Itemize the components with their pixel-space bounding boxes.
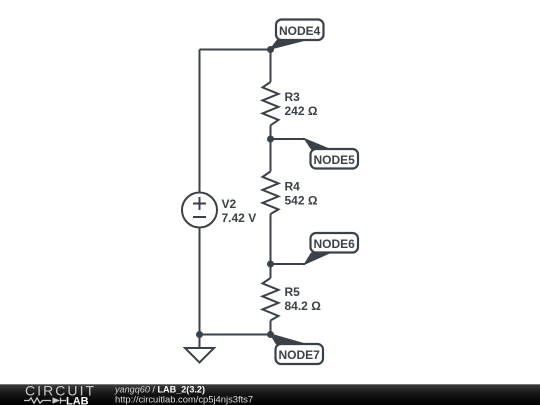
label V2 value bbox=[222, 197, 257, 225]
svg-text:R5: R5 bbox=[285, 285, 301, 299]
svg-text:84.2 Ω: 84.2 Ω bbox=[285, 299, 322, 313]
svg-text:R3: R3 bbox=[285, 90, 301, 104]
ground bbox=[185, 335, 214, 363]
svg-text:http://circuitlab.com/cp5j4njs: http://circuitlab.com/cp5j4njs3fts7 bbox=[115, 393, 253, 404]
svg-text:NODE4: NODE4 bbox=[279, 24, 321, 38]
svg-text:NODE5: NODE5 bbox=[314, 153, 356, 167]
V2 minus sign bbox=[193, 216, 206, 218]
wire bottom horizontal bbox=[200, 334, 271, 336]
svg-text:7.42 V: 7.42 V bbox=[222, 211, 257, 225]
junction node6 bbox=[267, 261, 274, 268]
label R3 value bbox=[285, 90, 318, 118]
label R4 value bbox=[285, 180, 318, 208]
wire node5 stub bbox=[271, 138, 306, 140]
V2 plus sign bbox=[193, 197, 206, 210]
junction ground bbox=[196, 331, 203, 338]
svg-text:NODE6: NODE6 bbox=[314, 237, 356, 251]
svg-text:LAB: LAB bbox=[66, 396, 89, 405]
wire top horizontal bbox=[200, 49, 271, 51]
junction node7 bbox=[267, 331, 274, 338]
svg-text:R4: R4 bbox=[285, 180, 301, 194]
footer bar bbox=[0, 384, 540, 405]
logo CircuitLab bbox=[24, 383, 96, 405]
voltage source V2 bbox=[182, 193, 217, 228]
label R5 value bbox=[285, 285, 322, 313]
junction node4 bbox=[267, 46, 274, 53]
wire left vertical lower bbox=[199, 228, 201, 335]
svg-text:NODE7: NODE7 bbox=[279, 348, 321, 362]
node NODE7 pointer bbox=[269, 333, 309, 345]
resistor R4 bbox=[263, 172, 279, 215]
wire left vertical upper bbox=[199, 50, 201, 193]
junction node5 bbox=[267, 136, 274, 143]
node NODE5 pointer bbox=[303, 138, 332, 150]
wire R3 to R4 bbox=[270, 125, 272, 171]
node NODE4 bbox=[276, 20, 324, 41]
svg-text:242 Ω: 242 Ω bbox=[285, 104, 318, 118]
wire R4 to R5 bbox=[270, 214, 272, 278]
wire node4 to R3 bbox=[270, 50, 272, 83]
wire R5 to node7 bbox=[270, 321, 272, 335]
resistor R5 bbox=[263, 278, 279, 321]
node NODE4 pointer bbox=[269, 40, 310, 51]
footer text bbox=[114, 384, 253, 404]
node NODE5 bbox=[311, 149, 359, 169]
resistor R3 bbox=[263, 82, 279, 125]
svg-text:542 Ω: 542 Ω bbox=[285, 194, 318, 208]
svg-text:V2: V2 bbox=[222, 197, 237, 211]
node NODE6 pointer bbox=[303, 253, 332, 266]
node NODE7 bbox=[276, 344, 324, 364]
node NODE6 bbox=[311, 233, 359, 253]
wire node6 stub bbox=[271, 263, 306, 265]
